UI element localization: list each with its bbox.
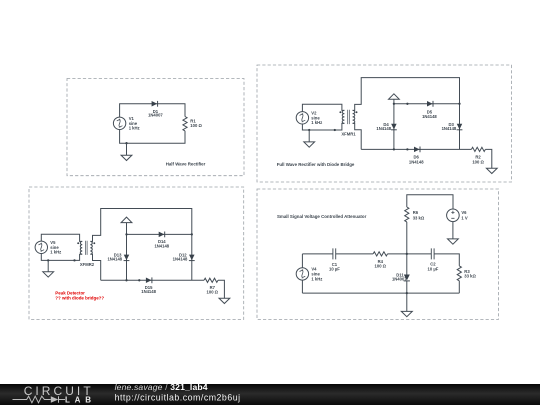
wire R3 bottom stub (458, 281, 460, 293)
node dot D5 row right (458, 103, 460, 105)
node dot b3 bottom rail mid (138, 279, 140, 281)
svg-text:1 kHz: 1 kHz (50, 250, 61, 255)
diode D5 (427, 101, 433, 107)
diode D11 (404, 275, 410, 281)
node dot D5 row mid (406, 103, 408, 105)
diode D3 (457, 124, 463, 130)
voltage source V2 (296, 112, 308, 124)
ground V2 (304, 130, 315, 147)
transformer XFMR1 (339, 110, 357, 124)
node junction wire join b3 (73, 259, 75, 261)
svg-text:1N4148: 1N4148 (173, 257, 188, 262)
wire V6 to ground (452, 222, 454, 239)
node dot D5 row left (393, 103, 395, 105)
wire secondary bottom to rail b3 (90, 254, 100, 280)
svg-text:33 kΩ: 33 kΩ (413, 215, 425, 220)
ground block1 (121, 143, 132, 160)
wire bottom loop block3 (41, 254, 82, 261)
wire bottom rail block4 (302, 292, 459, 294)
dashed frame block 1 (67, 79, 244, 176)
ground V5 (43, 260, 54, 277)
svg-text:1N4148: 1N4148 (154, 244, 169, 249)
svg-text:1N4148: 1N4148 (409, 159, 424, 164)
wire D13 column (126, 234, 128, 280)
svg-text:http://circuitlab.com/cm2b6uj: http://circuitlab.com/cm2b6uj (115, 393, 241, 403)
wire right column b3 (191, 234, 193, 280)
diode D1 (152, 101, 158, 107)
wire bottom rail block3 (101, 279, 204, 281)
svg-text:100 Ω: 100 Ω (190, 123, 202, 128)
svg-text:100 Ω: 100 Ω (375, 263, 387, 268)
ground R2 (486, 168, 497, 173)
wire D4 column (393, 104, 395, 150)
node dot bottom rail mid (406, 148, 408, 150)
wire top block4 (407, 195, 453, 209)
voltage source V4 (296, 268, 308, 280)
flipped ground block3 (121, 217, 132, 234)
svg-text:XFMR1: XFMR1 (341, 131, 356, 136)
ground V6 (448, 239, 459, 244)
svg-text:100 Ω: 100 Ω (207, 290, 219, 295)
wire V4 bottom stub (301, 280, 303, 293)
wire R2 to ground (485, 149, 491, 168)
svg-text:1N4007: 1N4007 (392, 277, 407, 282)
flipped ground block2 (389, 94, 400, 104)
diode D15 (146, 277, 152, 283)
dashed frame block 2 (257, 65, 512, 182)
logo resistor diode glyph (13, 396, 66, 403)
node dot bottom rail b4 (406, 292, 408, 294)
wire secondary bottom to rail (353, 123, 362, 149)
svg-text:1 kHz: 1 kHz (311, 120, 322, 125)
wire bottom rail block2 (361, 148, 471, 150)
svg-text:1 V: 1 V (461, 215, 467, 220)
node junction block1 (125, 142, 127, 144)
resistor R3 (457, 266, 461, 281)
ground center block4 (401, 311, 412, 316)
capacitor C2 (431, 248, 434, 259)
svg-text:LAB: LAB (65, 395, 96, 404)
resistor R7 (204, 278, 218, 282)
node dot D14 row left (125, 233, 127, 235)
wire D14 row (127, 233, 192, 235)
svg-text:1 kHz: 1 kHz (311, 276, 322, 281)
svg-text:1N4148: 1N4148 (107, 257, 122, 262)
svg-text:XFMR2: XFMR2 (80, 262, 95, 267)
dashed frame block 4 (257, 189, 499, 319)
node dot bottom rail left (393, 148, 395, 150)
node dot main row (406, 253, 408, 255)
svg-text:33 kΩ: 33 kΩ (464, 274, 476, 279)
svg-text:V6: V6 (461, 210, 467, 215)
wire bottom loop block2 (302, 123, 344, 130)
wire right column (459, 104, 461, 150)
diode D4 (391, 124, 397, 130)
node dot D14 row right (191, 233, 193, 235)
svg-text:1N4148: 1N4148 (422, 114, 437, 119)
svg-text:10 µF: 10 µF (329, 267, 340, 272)
resistor R4 (373, 252, 387, 256)
svg-text:lene.savage / 321_lab4: lene.savage / 321_lab4 (115, 382, 208, 392)
node junction wire join (334, 129, 336, 131)
transformer XFMR2 (77, 241, 95, 255)
wire top loop block3 (41, 234, 82, 241)
resistor R6 (405, 207, 409, 222)
wire main row block4 (302, 254, 459, 266)
wire center column lower (406, 281, 408, 312)
voltage source V1 (113, 117, 125, 129)
wire secondary top to rail b3 (90, 209, 191, 242)
ground R7 (219, 298, 230, 303)
dashed frame block 3 (29, 187, 244, 319)
resistor R2 (471, 147, 485, 151)
svg-text:1N4148: 1N4148 (376, 126, 391, 131)
wire V4 top stub (301, 254, 303, 268)
node dot b3 bottom rail left (125, 279, 127, 281)
voltage source V5 (35, 241, 47, 253)
wire top loop block2 (302, 104, 344, 111)
svg-text:1N4007: 1N4007 (148, 113, 163, 118)
svg-text:Half Wave Rectifier: Half Wave Rectifier (166, 161, 206, 166)
wire center column upper (406, 222, 408, 275)
svg-text:Small Signal Voltage Controlle: Small Signal Voltage Controlled Attenuat… (277, 214, 367, 219)
wire bottom loop block1 (120, 130, 185, 144)
resistor R1 (183, 117, 187, 131)
wire secondary top to rail (353, 78, 460, 111)
svg-text:1 kHz: 1 kHz (129, 126, 140, 131)
diode D14 (159, 232, 165, 238)
wire top loop block1 (120, 104, 185, 117)
svg-text:?? with diode bridge??: ?? with diode bridge?? (55, 296, 104, 301)
node junction V2 ground (308, 129, 310, 131)
diode D12 (189, 255, 195, 261)
wire D5 row (394, 103, 460, 105)
footer bar (0, 384, 540, 405)
svg-text:1N4148: 1N4148 (141, 289, 156, 294)
capacitor C1 (333, 248, 336, 259)
svg-text:Full Wave Rectifier with Diode: Full Wave Rectifier with Diode Bridge (277, 162, 355, 167)
voltage source V6 (447, 209, 460, 222)
svg-text:1N4148: 1N4148 (442, 126, 457, 131)
diode D6 (414, 147, 420, 153)
svg-text:10 µF: 10 µF (428, 266, 439, 271)
node junction V5 ground (47, 259, 49, 261)
wire R7 to ground (218, 280, 224, 298)
svg-text:R6: R6 (413, 210, 419, 215)
diode D13 (124, 255, 130, 261)
svg-text:100 Ω: 100 Ω (472, 159, 484, 164)
